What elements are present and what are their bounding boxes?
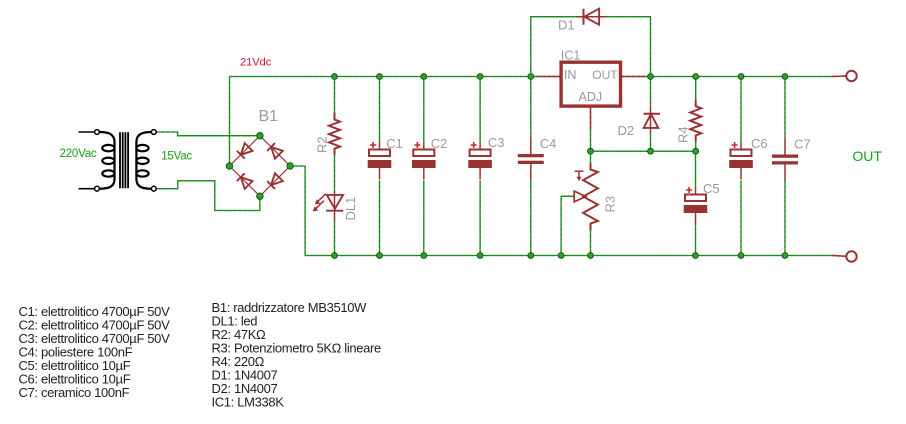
svg-text:C3: C3 [488,135,505,150]
svg-text:C6: C6 [751,136,768,151]
wire overlay texture [157,17,847,257]
junction dots mid node [588,148,699,154]
transformer TR1 primary winding [99,132,114,189]
pin ADJ red stub [590,107,592,130]
wire top rail red stub to terminal [833,75,847,78]
diode D2 [644,106,661,133]
svg-text:IC1: LM338K: IC1: LM338K [212,395,285,410]
capacitor C4 [518,137,544,180]
svg-text:C5: C5 [703,181,720,196]
bridge rectifier B1 diagonals [230,136,291,197]
wire R3 branch [590,151,592,255]
svg-text:C2: C2 [431,136,448,151]
LED DL1 arrows [313,194,326,212]
terminal bottom output [846,251,856,261]
svg-text:21Vdc: 21Vdc [240,57,272,69]
wire R2 branch [334,77,336,113]
pin IN red stub [538,76,561,78]
wire C1 branch [379,77,381,256]
transformer TR1 core [120,132,128,188]
svg-text:DL1: DL1 [343,197,358,221]
svg-text:IC1: IC1 [561,48,581,62]
wire IN pin green part [531,76,538,78]
wire transformer secondary top to bridge [157,132,260,136]
diode D1 [576,9,606,25]
junction dots bottom rail [332,253,788,259]
pin OUT red stub [622,76,644,78]
transformer TR1 secondary winding [136,132,151,189]
capacitor C6 [729,142,753,180]
capacitor C7 [772,138,798,181]
svg-text:C7: ceramico 100nF: C7: ceramico 100nF [19,385,130,400]
wire C2 branch [423,77,425,256]
wire ADJ to mid node [590,129,592,151]
junction dots top rail [332,74,788,80]
resistor R4 [690,100,701,142]
capacitor C2 [412,142,436,180]
svg-text:C4: C4 [540,136,557,151]
wire D2 branch [650,77,652,152]
svg-text:ADJ: ADJ [579,90,603,104]
wire C7 branch [784,77,786,256]
svg-text:IN: IN [564,68,577,82]
wire bottom rail [290,166,832,256]
bridge diode top-left [237,143,253,159]
resistor R2 [329,113,340,156]
svg-text:R4: R4 [676,126,691,143]
svg-text:C7: C7 [794,137,811,152]
junction dots bridge nodes [226,133,293,200]
potentiometer R3 wiper arrow [574,191,586,202]
bridge diode bottom-right [267,173,283,189]
transformer TR1 black leads [79,132,95,189]
svg-text:OUT: OUT [592,68,618,82]
svg-text:B1: B1 [259,108,279,125]
parts list semiconductors [212,300,382,410]
svg-text:220Vac: 220Vac [60,148,97,160]
capacitor C3 [468,142,492,180]
svg-text:D2: D2 [618,123,635,138]
transformer TR1 terminal circles [95,130,157,192]
svg-text:OUT: OUT [852,148,882,164]
wire OUT pin green part [644,76,651,78]
wire D1 loop [531,17,576,77]
wire R4 branch [695,77,697,152]
svg-text:15Vac: 15Vac [161,150,192,162]
terminal top output [846,71,856,81]
LED DL1 [326,191,343,221]
capacitor C1 [368,142,392,180]
svg-text:R3: R3 [603,196,618,213]
capacitor C5 [684,187,708,225]
wire bottom rail red stub to terminal [833,255,847,258]
bridge diode bottom-left [237,173,253,189]
wire C4 branch [530,77,532,256]
svg-text:R2: R2 [315,136,330,153]
wire R3 wiper to bottom rail [561,196,574,255]
svg-text:C1: C1 [386,136,403,151]
bridge diode top-right [267,143,283,159]
wire C6 branch [740,77,742,256]
wire mid horizontal ADJ-D2-R4 [591,150,696,152]
wire drop from rail to bridge left node [229,77,231,167]
potentiometer R3 adjust mark [575,171,584,181]
voltage regulator IC1 box [561,62,620,106]
parts list capacitors [19,304,171,400]
svg-text:D1: D1 [558,17,575,32]
potentiometer R3 [583,163,598,230]
wire C5 branch [695,151,697,255]
wire C3 branch [479,77,481,256]
wire transformer secondary bottom to bridge [157,181,260,211]
wire top rail 21Vdc [230,76,833,78]
